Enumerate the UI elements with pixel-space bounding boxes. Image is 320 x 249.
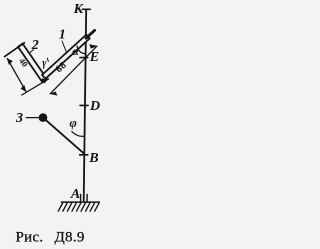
svg-text:B: B — [88, 151, 98, 166]
wire vertical shaft KA — [84, 10, 87, 202]
svg-text:2: 2 — [31, 38, 39, 53]
rod 2 end-cap / extension line (top) — [5, 43, 25, 57]
svg-text:Д8.9: Д8.9 — [55, 230, 85, 246]
svg-text:A: A — [70, 187, 80, 202]
svg-text:α: α — [72, 44, 79, 58]
node E tick — [80, 57, 88, 59]
node D tick — [80, 104, 88, 106]
dimension arrow along rod 1 — [50, 46, 96, 93]
svg-text:φ: φ — [70, 116, 77, 130]
wire top cap at K — [82, 8, 90, 10]
leader line from label 2 to rod 2 — [30, 50, 34, 53]
rod 2 (outlined bar) — [18, 44, 47, 83]
svg-text:Рис.: Рис. — [16, 230, 44, 246]
node B tick — [80, 154, 88, 156]
rod 1 (outlined bar) — [42, 35, 90, 79]
ground hatching — [58, 202, 99, 211]
bearing at A right stroke — [86, 194, 88, 201]
svg-text:3: 3 — [15, 111, 23, 126]
ground line — [62, 201, 100, 203]
joint blob at rod vertex — [41, 78, 47, 83]
lever rod from ball 3 to B — [43, 118, 84, 154]
svg-text:γ: γ — [42, 58, 47, 69]
dimension arrow along rod 2 — [7, 59, 26, 92]
svg-text:К: К — [73, 2, 85, 17]
svg-text:D: D — [89, 99, 100, 114]
svg-text:1: 1 — [59, 27, 66, 42]
ball 3 — [39, 113, 48, 122]
svg-text:E: E — [89, 50, 99, 65]
angle alpha arc — [77, 46, 85, 54]
bearing at A left stroke — [80, 194, 82, 201]
rod 2 extension line (bottom, at vertex) — [22, 79, 49, 95]
ball 3 leader line — [26, 117, 38, 119]
angle phi arc — [72, 132, 85, 137]
leader line from label 1 to rod 1 — [62, 41, 67, 53]
